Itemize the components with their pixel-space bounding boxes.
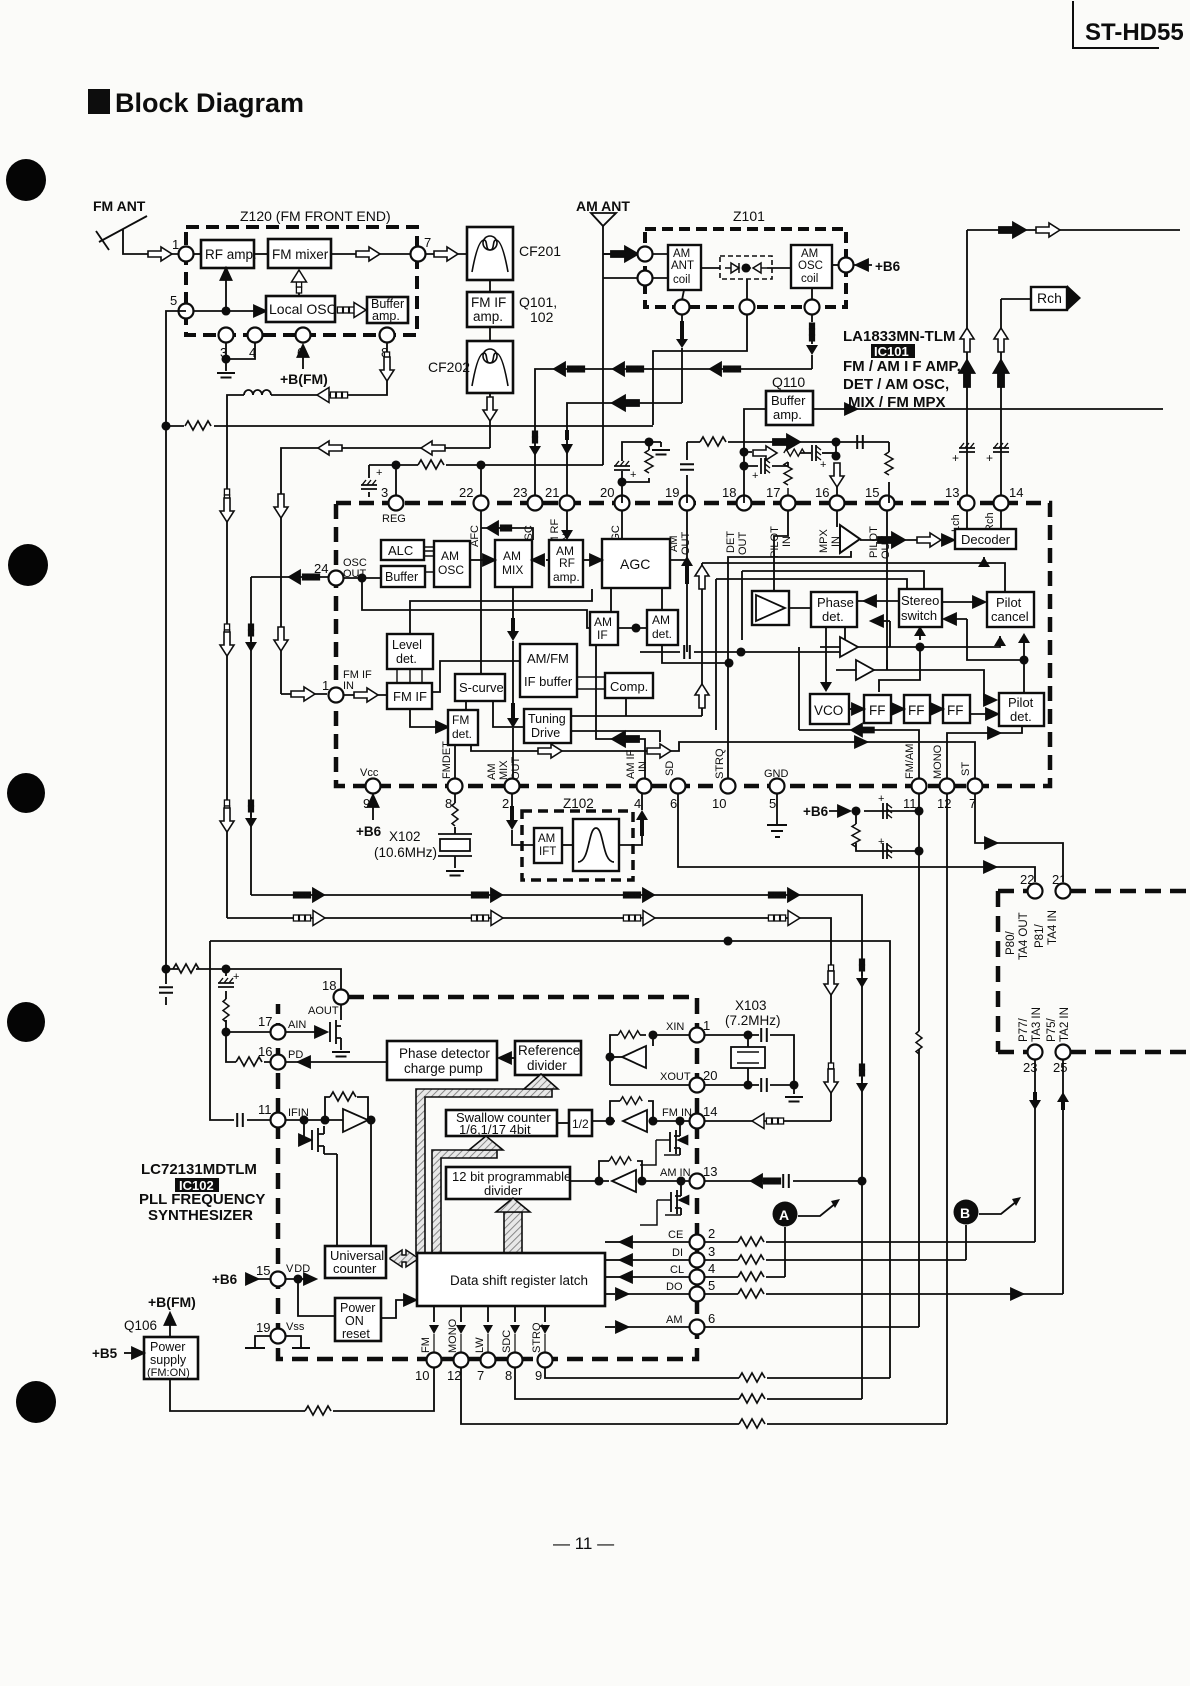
coil [244,390,271,395]
dotted black arrows on x251 [249,624,253,629]
svg-text:19: 19 [256,1320,270,1335]
svg-text:11: 11 [903,796,917,811]
electrolytic cap at REG [369,465,396,497]
svg-text:XOUT: XOUT [660,1071,691,1083]
svg-text:Q101,: Q101, [519,294,557,310]
pilot cancel to decoder [984,563,1005,592]
svg-text:IFT: IFT [539,846,556,858]
svg-text:102: 102 [530,309,554,325]
svg-text:12: 12 [447,1368,461,1383]
svg-text:1/2: 1/2 [572,1117,589,1131]
decoder pin rails [967,510,1001,529]
stereo bottom to FF1 [879,647,920,692]
pin 15 PILOT OUT [880,496,895,511]
FM mixer box [268,239,331,268]
svg-text:FM IF: FM IF [393,689,427,704]
FM antenna [96,216,152,254]
comp bottom link [625,698,627,716]
svg-text:amp.: amp. [773,407,802,422]
node 6 [296,328,311,343]
open left arrow w dots on node8 wire [317,388,329,403]
svg-text:+B6: +B6 [356,824,382,839]
black dotted down arrows on x862 rail [860,959,864,964]
wire CF201-FMIF [489,280,491,292]
wire coil to varactor [701,267,720,269]
svg-text:10: 10 [712,796,726,811]
svg-text:+B6: +B6 [875,259,901,274]
svg-text:6: 6 [708,1311,715,1326]
svg-text:B: B [960,1205,970,1221]
pin 7 LW [481,1353,496,1368]
tri amp 2 [856,660,874,680]
pilot det to mono [947,726,1022,779]
svg-text:+B(FM): +B(FM) [280,371,328,387]
register to pin arrows [434,1306,545,1322]
svg-text:amp.: amp. [553,570,580,584]
pin 21 AM RF IN [560,496,575,511]
pin18 rail up to buffer amp input [744,409,766,503]
junction below RF amp [222,307,229,314]
pin19 rail and cap up to y442 [686,442,688,503]
pin 9 STRQ [538,1353,553,1368]
wire varactor to AM OSC coil [767,267,791,269]
x702 rail with open up arrows [701,563,703,716]
IC102 dashed outline [278,997,697,1359]
pin 6 SD [671,779,686,794]
svg-text:16: 16 [258,1044,272,1059]
main horizontal y426 with resistor [166,425,653,427]
AFC rail down to S-curve [480,510,482,674]
Buffer box [381,566,425,587]
pin22 rail [480,465,482,503]
svg-text:+: + [878,836,884,848]
svg-text:5: 5 [170,293,177,308]
svg-text:IN: IN [637,761,649,772]
FM IF box [387,683,432,709]
svg-text:FF: FF [869,703,886,718]
svg-text:(10.6MHz): (10.6MHz) [374,845,437,860]
AM OSC coil box [791,245,832,288]
pin 10 STRQ [721,779,736,794]
Z101 dashed box [645,229,846,307]
pin 12 MONO [940,779,955,794]
svg-text:+: + [820,459,826,471]
svg-text:OUT: OUT [510,757,522,781]
svg-text:det.: det. [1010,709,1032,724]
wire 12bit divider to AM IN amp [570,1180,599,1182]
svg-text:FM / AM I F AMP,: FM / AM I F AMP, [843,358,961,375]
fm/am line y730 [799,730,919,779]
pin 7 ST to pin21 [975,793,1063,882]
resistor below pin 8 [454,793,456,834]
pin 4 CL [690,1270,705,1285]
filter link [562,844,573,846]
svg-text:switch: switch [901,608,937,623]
svg-text:GND: GND [764,768,789,780]
osc junction down to am if feed [362,578,590,628]
FF3 box [943,695,970,723]
pin 19 AM OUT [680,496,695,511]
svg-text:OUT: OUT [737,532,749,556]
FF2 box [904,695,930,723]
svg-text:STRQ: STRQ [714,748,726,779]
svg-text:1/6,1/17 4bit: 1/6,1/17 4bit [459,1122,531,1137]
svg-text:IC101: IC101 [874,344,909,359]
dotted open arrow up into FM mixer [298,292,300,296]
svg-text:+: + [986,451,993,465]
svg-text:RF: RF [559,556,575,570]
svg-text:divider: divider [527,1058,567,1073]
Rch box [1001,298,1031,300]
node3 wire to OSC return line [811,355,813,369]
Level det box [387,634,433,669]
svg-text:AOUT: AOUT [308,1005,339,1017]
top line y442 [687,441,889,443]
pin 18 DET OUT [737,496,752,511]
circled B [954,1200,979,1225]
pin 22 port [1028,884,1043,899]
svg-text:divider: divider [484,1183,523,1198]
filter out to pin4 [619,836,642,845]
FM IF feed line y448 [281,448,490,694]
svg-text:P80/: P80/ [1005,931,1017,955]
pin 11 IFIN [271,1113,286,1128]
svg-text:Reference: Reference [518,1043,580,1058]
svg-text:1: 1 [703,1018,710,1033]
svg-text:coil: coil [673,274,690,286]
Swallow counter box [446,1110,557,1136]
svg-text:det.: det. [452,727,472,741]
Lch top line with arrows [967,229,1180,231]
wire node5 into OSC [194,310,266,312]
svg-text:8: 8 [445,796,452,811]
svg-text:Phase detector: Phase detector [399,1046,490,1061]
pin 7 ST [968,779,983,794]
pin 25 port [1056,1045,1071,1060]
pin19 rail black up arrow [686,510,688,652]
Data shift register latch box [417,1253,605,1306]
arrows between AM blocks [470,559,483,561]
pin 13 AM IN [690,1174,705,1189]
FM IF to FM det [410,709,441,727]
+B6 arrow into pin 9 [372,797,374,820]
buffer-comp links [577,677,605,689]
black left arrow on y403 [612,396,639,411]
svg-text:FM mixer: FM mixer [272,247,329,262]
svg-text:FM ANT: FM ANT [93,198,146,214]
open arrow down from CF202 [489,393,491,398]
node 3 [219,328,234,343]
svg-text:Z102: Z102 [563,796,594,811]
pin 5 GND [770,779,785,794]
pin 14 Rch [994,496,1009,511]
AM IF box [590,612,618,645]
pin21 into AM RF amp [566,510,568,534]
svg-text:SD: SD [664,761,676,776]
cap line y652 [640,627,845,652]
svg-text:Data shift register latch: Data shift register latch [450,1273,588,1288]
Z101 right node [839,258,854,273]
svg-text:+: + [952,451,959,465]
bus2 open dotted arrows y918 [227,918,831,1121]
svg-text:7: 7 [477,1368,484,1383]
cap on x166 below [165,969,167,1005]
mid node wire down-left-down [653,314,747,425]
svg-text:amp.: amp. [372,309,400,323]
Comp box [605,673,653,698]
tri2 output to pilot det [874,670,984,697]
Z101 bottom node 2 [740,300,755,315]
AFC branch to AM MIX top [481,528,533,540]
FM det to pin8 [454,745,456,779]
pin 5 DO [690,1287,705,1302]
svg-text:AM IF: AM IF [625,749,637,779]
dotted black arrow down from node3 [811,314,813,322]
coil to left rail x227 [227,395,244,480]
VCO-FF chain arrows [849,708,852,710]
svg-text:AGC: AGC [620,556,650,572]
branch 18: open arrow resistor trimmer to mpx [744,452,811,453]
AM MIX box [495,540,532,587]
wire node7-CF201 [426,253,467,255]
bus3 strq line y941 [210,941,890,1378]
svg-text:ALC: ALC [388,543,413,558]
svg-text:11: 11 [258,1102,272,1117]
level det to FM IF pins [397,669,422,683]
svg-text:FM/AM: FM/AM [904,744,916,779]
svg-text:+B6: +B6 [803,804,829,819]
open up arrows on Lch/Rch rails [960,328,974,352]
pin 12 rail down [946,793,948,1424]
pin 21 port [1056,884,1071,899]
FM det to stereo line [471,742,975,779]
S-curve box [455,674,505,701]
svg-text:Phase: Phase [817,595,854,610]
pin 12 MONO [454,1353,469,1368]
svg-text:FMDET: FMDET [441,741,453,779]
Z102 dashed box [522,811,633,880]
svg-text:LW: LW [474,1337,486,1353]
CF202 box [467,341,513,393]
left arrows w dots on y369 [554,363,565,376]
node5 rail x166 [166,311,186,969]
pin 6 AM [690,1320,705,1335]
S-curve to tuning drive [493,701,524,727]
trimmer caps on Lch/Rch rails [959,443,975,452]
pin 20 XOUT [690,1078,705,1093]
tuning drive outputs [571,716,702,742]
svg-text:(FM:ON): (FM:ON) [147,1367,190,1379]
pin 14 FM IN [690,1114,705,1129]
svg-text:2: 2 [708,1226,715,1241]
Tuning drive box [524,709,571,743]
svg-text:MIX: MIX [502,563,523,577]
svg-text:AM: AM [666,1314,683,1326]
ref divider to phase det link [505,1057,515,1059]
pin 18 AOUT [334,990,349,1005]
svg-text:S-curve: S-curve [459,680,504,695]
node 5 [179,304,194,319]
svg-text:ST: ST [960,762,972,776]
svg-text:Power: Power [340,1301,375,1315]
rect amp output to phase det [789,607,811,609]
varactor dashed box [720,256,772,279]
FM IF to AM/FM buffer [432,661,520,692]
arrows into phase det right [857,600,899,602]
VCO box [810,694,849,724]
svg-text:FM IF: FM IF [471,295,506,310]
pin 24 OSC OUT [329,571,344,586]
OSC return line y369 to pin23 rail [535,369,812,503]
Z101 bottom node 1 [675,300,690,315]
Decoder box [955,529,1016,549]
svg-text:16: 16 [815,485,829,500]
pin 11 FM/AM [912,779,927,794]
pilot out line y563 to decoder [702,557,984,563]
svg-text:Vss: Vss [286,1321,305,1333]
svg-text:+: + [878,793,884,805]
svg-text:ST-HD55: ST-HD55 [1085,19,1184,46]
svg-text:DET: DET [725,531,737,553]
x281 rail into pin 1 [281,693,327,695]
Stereo switch box [899,589,942,627]
pin 13 Lch [960,496,975,511]
port 25 up arrow from DO line [1062,1059,1064,1294]
svg-text:19: 19 [665,485,679,500]
pin 11 rail down [918,793,920,1327]
svg-text:18: 18 [322,978,336,993]
dotted open arrow down from node 8 [386,342,388,352]
svg-text:(7.2MHz): (7.2MHz) [725,1013,781,1028]
svg-text:TA4 IN: TA4 IN [1047,910,1059,945]
svg-text:IF: IF [597,628,608,642]
svg-text:P81/: P81/ [1034,924,1046,948]
pin 8 FMDET [448,779,463,794]
svg-text:1: 1 [172,237,179,252]
svg-text:OSC: OSC [438,563,464,577]
pin 15 VDD [271,1272,286,1287]
FM IN wire with dotted open arrow [705,1120,831,1122]
svg-text:reset: reset [342,1327,370,1341]
svg-text:det.: det. [652,627,672,641]
svg-text:Pilot: Pilot [996,595,1022,610]
reset output arrow into register [381,1300,407,1318]
+B(FM) feed to node 6 [302,349,304,369]
pin20 RC cluster [622,442,661,503]
pin 16 PD [271,1055,286,1070]
Z101 node lower-left [638,271,653,286]
svg-text:15: 15 [865,485,879,500]
svg-text:OUT: OUT [680,532,692,556]
svg-text:3: 3 [708,1244,715,1259]
svg-text:AM IN: AM IN [660,1167,691,1179]
svg-text:— 11 —: — 11 — [553,1534,614,1553]
svg-text:+: + [630,469,636,481]
ground for nodes 3,4 [226,342,255,371]
svg-text:AM: AM [594,615,612,629]
Q110 buffer amp box [766,391,813,425]
svg-text:AM/FM: AM/FM [527,651,569,666]
Phase det to VCO [825,627,827,686]
svg-text:Q106: Q106 [124,1318,157,1333]
FM IN mosfet [670,1121,680,1155]
svg-text:RF amp.: RF amp. [205,247,257,262]
black up arrows on Lch/Rch rails [960,360,975,387]
pin 17 PILOT IN [781,496,796,511]
svg-text:DI: DI [672,1247,683,1259]
svg-text:Buffer: Buffer [385,570,418,584]
bus to swallow counter [432,1150,497,1254]
bus to 12bit divider [504,1212,522,1254]
open arrow to CF201 [434,247,458,261]
svg-text:CL: CL [670,1264,684,1276]
AM OSC box [434,541,470,587]
varactor diodes [725,263,747,273]
wire node1 feed [152,253,178,255]
svg-text:PILOT: PILOT [769,526,781,558]
svg-text:24: 24 [314,561,328,576]
svg-text:TA2 IN: TA2 IN [1059,1007,1071,1042]
svg-text:18: 18 [722,485,736,500]
svg-text:AM: AM [673,248,690,260]
stereo to pilot cancel arrow [942,601,975,603]
pin 1 XIN [690,1028,705,1043]
Phase detector charge pump box [387,1041,497,1080]
FF3 to pilot det [970,713,987,715]
svg-text:22: 22 [459,485,473,500]
bus to reference divider [416,1089,552,1254]
Lch rail [966,230,968,503]
svg-text:AM: AM [652,613,670,627]
port 23 down arrow to CE line [1034,1059,1036,1242]
svg-text:X102: X102 [389,829,421,844]
1/2 box [569,1110,592,1136]
svg-text:amp.: amp. [473,309,503,324]
svg-text:counter: counter [333,1261,377,1276]
wire mixer-node7 [331,253,411,255]
svg-text:PD: PD [288,1049,303,1061]
AGC into AM IF / AM det [611,588,662,612]
svg-text:FF: FF [947,703,964,718]
stereo feed 2 y579 [716,579,907,591]
pin 23 port [1028,1045,1043,1060]
svg-text:P77/: P77/ [1018,1018,1030,1042]
pin12 row [461,1367,947,1424]
Power ON reset box [335,1298,381,1341]
Buffer amp box (Z120) [367,297,408,323]
svg-text:DO: DO [666,1281,683,1293]
left rail x227 dotted open arrows [226,480,228,918]
svg-text:OSC: OSC [798,260,823,272]
IFIN amp [286,1119,343,1121]
svg-text:MPX: MPX [818,529,830,554]
AM RF amp box [549,540,583,587]
pin 1 FM IF IN [329,688,344,703]
pin 10 FM [427,1353,442,1368]
svg-text:Power: Power [150,1340,185,1354]
branch from pin18 dot to pilot in resistor [744,462,788,466]
svg-text:IN: IN [343,680,354,692]
svg-text:+: + [752,470,758,482]
AM RF line y403 from node1 rail to pin21 rail [567,403,682,503]
svg-text:DET / AM OSC,: DET / AM OSC, [843,376,949,393]
Power supply box [144,1337,198,1379]
punch hole blobs [6,159,46,201]
pin 4 AM IF IN [637,779,652,794]
Rch rail [1000,299,1002,503]
12 bit programmable divider box [446,1167,570,1199]
pilot cancel right bottom arrow [1023,640,1025,660]
